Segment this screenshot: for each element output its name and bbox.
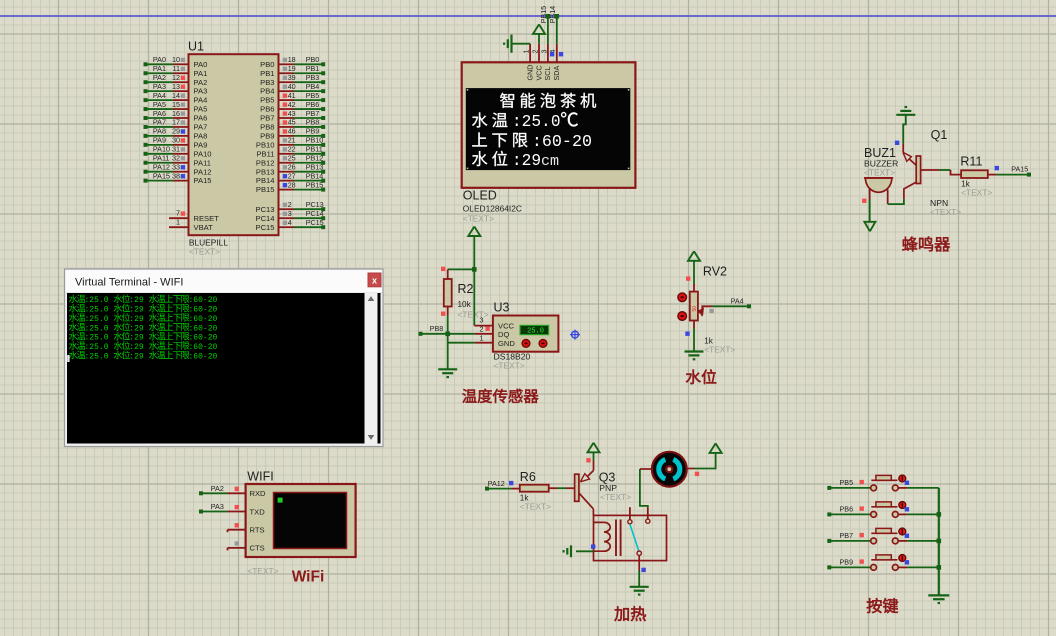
svg-text:PB5: PB5 — [260, 96, 274, 105]
svg-text:RXD: RXD — [250, 489, 267, 498]
svg-text:<TEXT>: <TEXT> — [961, 187, 992, 197]
svg-text:31: 31 — [172, 145, 180, 154]
virtual terminal close button — [368, 273, 381, 287]
svg-text:25.0: 25.0 — [527, 328, 544, 336]
svg-text:<TEXT>: <TEXT> — [189, 247, 220, 257]
svg-text:PB7: PB7 — [840, 531, 854, 540]
svg-text:PB12: PB12 — [306, 154, 324, 163]
U1 pin PA9 (pin 30) wire — [144, 136, 208, 150]
terminal cursor — [67, 355, 69, 362]
WIFI pin RXD — [228, 489, 267, 498]
U1 pin PA2 (pin 12) wire — [144, 73, 208, 87]
wire PA12 to R6 — [487, 488, 520, 490]
resistor R6 — [520, 485, 549, 492]
svg-text::29: :29 — [129, 315, 144, 324]
U1 pin PA0 (pin 10) wire — [144, 55, 208, 69]
svg-text:3: 3 — [288, 209, 292, 218]
svg-text:50: 50 — [692, 306, 698, 312]
svg-text:PA4: PA4 — [731, 296, 744, 305]
svg-text:OLED: OLED — [463, 189, 497, 203]
terminal PA4 — [747, 304, 751, 308]
U1 pin PA10 (pin 31) wire — [144, 145, 212, 159]
ground below buttons — [928, 595, 949, 603]
svg-text:19: 19 — [288, 64, 296, 73]
svg-text:46: 46 — [288, 127, 296, 136]
svg-text:PB1: PB1 — [306, 64, 320, 73]
svg-text:PA0: PA0 — [194, 60, 208, 69]
wire motor to power — [694, 443, 722, 468]
indicator Q1 collector — [895, 141, 899, 145]
push button PB5 row — [827, 475, 939, 491]
svg-text:RTS: RTS — [250, 526, 265, 535]
U1 pin PB7 (pin 43) wire — [260, 109, 325, 123]
svg-text:PB15: PB15 — [539, 6, 548, 24]
U1 pin PB8 (pin 45) wire — [260, 118, 325, 132]
svg-text:PB13: PB13 — [256, 167, 275, 176]
RTS stub tick — [227, 530, 229, 533]
svg-text:CTS: CTS — [250, 544, 265, 553]
label jia-re — [614, 606, 628, 621]
junction button row 2 — [937, 512, 942, 517]
svg-text:PA5: PA5 — [153, 100, 166, 109]
svg-text:PA10: PA10 — [194, 149, 212, 158]
svg-text:26: 26 — [288, 163, 296, 172]
svg-text:39: 39 — [288, 73, 296, 82]
svg-text:PA2: PA2 — [211, 484, 224, 493]
CTS stub tick — [227, 548, 229, 551]
OLED pin 4 SDA stub — [556, 44, 558, 63]
svg-text:PA11: PA11 — [153, 154, 170, 163]
transistor Q3 — [575, 461, 594, 509]
svg-text:1: 1 — [480, 333, 484, 342]
push button PB7 row — [827, 528, 939, 544]
svg-text:1: 1 — [176, 218, 180, 227]
svg-text:WIFI: WIFI — [247, 470, 273, 484]
svg-text:PB10: PB10 — [306, 136, 324, 145]
relay coil — [594, 520, 621, 557]
virtual terminal screen — [67, 293, 381, 444]
indicator R2 top — [441, 267, 445, 271]
wire SCL to PB15 — [547, 16, 549, 44]
svg-text:15: 15 — [172, 100, 180, 109]
svg-text:<TEXT>: <TEXT> — [864, 168, 895, 178]
microcontroller U1 BLUEPILL — [188, 40, 279, 236]
wire BUZ1 to down arrow — [869, 200, 871, 222]
svg-text:2: 2 — [288, 200, 292, 209]
svg-text:PB6: PB6 — [840, 505, 854, 514]
svg-text:11: 11 — [173, 64, 180, 73]
svg-text:2: 2 — [480, 325, 484, 334]
svg-text::25.0: :25.0 — [85, 352, 109, 361]
U1 pin PB6 (pin 42) wire — [260, 100, 325, 114]
ground below relay — [630, 586, 649, 588]
U3 up button — [522, 340, 530, 348]
svg-text:U1: U1 — [188, 40, 204, 54]
relay common contact — [637, 551, 641, 555]
svg-text:PA3: PA3 — [211, 502, 224, 511]
svg-text:PB11: PB11 — [256, 149, 274, 158]
U1 pin RESET (pin 7) — [169, 209, 219, 223]
motor right pin — [687, 468, 694, 470]
svg-text:PB5: PB5 — [840, 478, 854, 487]
U1 pin PA1 (pin 11) wire — [144, 64, 208, 78]
resistor R11 — [961, 170, 988, 178]
U1 pin PB5 (pin 41) wire — [260, 91, 325, 105]
U1 pin PA15 (pin 38) wire — [144, 171, 212, 185]
svg-text:21: 21 — [288, 136, 296, 145]
svg-text::60-20: :60-20 — [189, 343, 218, 352]
svg-text:PC13: PC13 — [256, 205, 275, 214]
U1 pin PB14 (pin 27) wire — [256, 171, 325, 185]
relay contact pole — [646, 507, 650, 523]
junction button row 4 — [937, 565, 942, 570]
svg-text:DQ: DQ — [498, 330, 509, 339]
svg-text:x: x — [372, 275, 377, 285]
temperature sensor U3 body — [493, 316, 559, 352]
wire VCC down to U3 pin 3 — [474, 269, 493, 325]
ground left of relay coil — [564, 545, 594, 557]
OLED pin 1 GND stub — [529, 44, 531, 63]
svg-text:PA7: PA7 — [194, 123, 208, 132]
R2 bottom pin — [447, 307, 449, 316]
resistor R2 — [444, 279, 452, 307]
svg-text:PC13: PC13 — [306, 200, 324, 209]
svg-text::25.0: :25.0 — [85, 296, 109, 305]
svg-text:PA7: PA7 — [153, 118, 166, 127]
svg-text:GND: GND — [525, 65, 534, 81]
svg-text:13: 13 — [172, 82, 180, 91]
terminal PA12 — [485, 479, 505, 491]
ground below U3 — [438, 368, 457, 370]
U1 pin PB13 (pin 26) wire — [256, 163, 325, 177]
wire Q3 collector to relay — [592, 509, 594, 516]
U1 pin PB10 (pin 21) wire — [256, 136, 325, 150]
svg-text:PA3: PA3 — [194, 87, 208, 96]
svg-text::25.0: :25.0 — [85, 306, 109, 315]
wire SDA to PB14 — [556, 16, 558, 44]
OLED pin 2 VCC stub — [538, 44, 540, 63]
svg-text::60-20: :60-20 — [189, 306, 218, 315]
svg-text:U3: U3 — [494, 301, 510, 315]
svg-text::25.0: :25.0 — [85, 334, 109, 343]
svg-text:PA5: PA5 — [194, 105, 208, 114]
indicator square pin4 — [559, 52, 563, 56]
indicator RV2 wiper — [709, 309, 713, 313]
svg-text:PA6: PA6 — [194, 114, 208, 123]
OLED screen text line 3 — [472, 132, 592, 152]
indicator U3 DQ — [485, 327, 489, 331]
motor left pin — [640, 468, 651, 470]
svg-text:PB11: PB11 — [306, 145, 323, 154]
svg-text:PA1: PA1 — [194, 69, 208, 78]
svg-text::29: :29 — [129, 343, 144, 352]
svg-text:PA0: PA0 — [153, 55, 166, 64]
OLED screen — [466, 88, 631, 170]
BUZ1 left leg — [869, 188, 871, 199]
wire R11 to PA15 — [996, 164, 1031, 176]
OLED screen text line 2 — [472, 112, 578, 131]
svg-text::60-20: :60-20 — [189, 324, 218, 333]
junction PB8/R2 — [445, 332, 450, 337]
svg-text:PB8: PB8 — [306, 118, 320, 127]
svg-text:PB7: PB7 — [260, 114, 274, 123]
wire R6 to Q3 base — [549, 487, 575, 489]
svg-text:RESET: RESET — [194, 214, 220, 223]
svg-text:R11: R11 — [960, 154, 982, 168]
U3 temperature display 25.0 — [520, 325, 549, 335]
svg-text:VBAT: VBAT — [194, 223, 214, 232]
wire relay common to ground — [638, 555, 640, 586]
svg-text:PA9: PA9 — [153, 136, 166, 145]
svg-text:29: 29 — [172, 127, 180, 136]
svg-text::29: :29 — [129, 352, 144, 361]
U1 pin PC14 (pin 3) wire — [256, 209, 326, 223]
svg-text::29: :29 — [129, 306, 144, 315]
svg-text:R6: R6 — [520, 470, 536, 484]
svg-text:PB7: PB7 — [306, 109, 320, 118]
svg-text:Virtual Terminal - WIFI: Virtual Terminal - WIFI — [75, 277, 183, 289]
wire ground to Q1 collector — [903, 115, 906, 144]
svg-text:PB15: PB15 — [256, 185, 275, 194]
junction VCC node — [472, 267, 477, 272]
svg-text:38: 38 — [172, 171, 180, 180]
svg-text:PB6: PB6 — [260, 105, 274, 114]
svg-text::60-20: :60-20 — [189, 296, 218, 305]
svg-text:RV2: RV2 — [703, 264, 727, 278]
inverted ground above Q1 — [896, 114, 915, 116]
power arrow above RV2 — [688, 251, 700, 284]
wire PA2 to RXD — [199, 484, 228, 495]
potentiometer RV2 body — [690, 292, 698, 321]
svg-text:PA15: PA15 — [1011, 164, 1028, 173]
U1 pin VBAT (pin 1) — [169, 218, 213, 232]
svg-text:PA12: PA12 — [153, 163, 170, 172]
svg-text:22: 22 — [288, 145, 296, 154]
power down arrow — [864, 222, 875, 232]
svg-text:PB14: PB14 — [548, 6, 557, 24]
indicator RV2 bottom — [685, 332, 689, 336]
svg-text::60-20: :60-20 — [189, 334, 218, 343]
svg-text:16: 16 — [172, 109, 180, 118]
U1 pin PB0 (pin 18) wire — [260, 55, 325, 69]
svg-text::60-20: :60-20 — [189, 315, 218, 324]
indicator BUZ1 — [862, 199, 866, 203]
svg-text:2: 2 — [532, 50, 539, 54]
indicator R11 — [995, 166, 999, 170]
svg-text:<TEXT>: <TEXT> — [458, 310, 489, 320]
label an-jian — [867, 598, 882, 613]
svg-text:PB1: PB1 — [260, 69, 274, 78]
svg-text:PA10: PA10 — [153, 145, 170, 154]
svg-text::25.0: :25.0 — [85, 324, 109, 333]
svg-text:28: 28 — [288, 180, 296, 189]
svg-text:<TEXT>: <TEXT> — [520, 502, 551, 512]
origin marker — [570, 330, 580, 340]
svg-text:27: 27 — [288, 171, 296, 180]
OLED display U-OLED body — [462, 62, 636, 188]
svg-text:SDA: SDA — [552, 66, 561, 81]
svg-text:PB0: PB0 — [306, 55, 320, 64]
svg-text:<TEXT>: <TEXT> — [494, 360, 525, 370]
svg-text:PB3: PB3 — [260, 78, 274, 87]
svg-text:4: 4 — [288, 218, 292, 227]
svg-text:PA2: PA2 — [153, 73, 166, 82]
U1 pin PA8 (pin 29) wire — [144, 127, 208, 141]
svg-text:PA8: PA8 — [194, 132, 208, 141]
svg-text:PA3: PA3 — [153, 82, 166, 91]
svg-text:PC14: PC14 — [306, 209, 324, 218]
svg-text:PA12: PA12 — [194, 167, 212, 176]
indicator square pin3 — [550, 52, 554, 56]
svg-text:PA1: PA1 — [153, 64, 166, 73]
svg-text::60-20: :60-20 — [532, 133, 592, 152]
RV2 wiper arrow — [697, 306, 748, 316]
svg-text::25.: :25. — [512, 113, 551, 131]
svg-text:1: 1 — [524, 50, 531, 54]
WIFI pin TXD — [228, 507, 266, 516]
junction PB14 — [555, 14, 560, 19]
svg-text:PB9: PB9 — [306, 127, 320, 136]
sheet border line — [0, 15, 1056, 17]
relay switch blade — [630, 524, 639, 551]
power arrow above R2 — [468, 227, 480, 270]
svg-text:PA15: PA15 — [153, 171, 170, 180]
svg-text:43: 43 — [288, 109, 296, 118]
svg-text:30: 30 — [172, 136, 180, 145]
OLED screen text line 4 — [472, 151, 559, 170]
svg-text:cm: cm — [541, 153, 559, 170]
svg-text:32: 32 — [172, 154, 180, 163]
svg-text:<TEXT>: <TEXT> — [247, 566, 278, 576]
svg-text:0: 0 — [551, 113, 561, 131]
wire PB8 horizontal — [419, 324, 493, 336]
junction button row 3 — [937, 539, 942, 544]
svg-text:10: 10 — [172, 55, 180, 64]
relay RL1 body — [594, 515, 667, 560]
wire junction to R2 top — [448, 269, 475, 279]
svg-text:PB5: PB5 — [306, 91, 320, 100]
label feng-ming-qi — [902, 237, 917, 252]
svg-text:7: 7 — [176, 209, 180, 218]
OLED pin 3 SCL stub — [547, 44, 549, 63]
svg-text:3: 3 — [480, 316, 484, 325]
svg-text:<TEXT>: <TEXT> — [600, 492, 631, 502]
svg-text:PB13: PB13 — [306, 163, 324, 172]
U1 pin PA7 (pin 17) wire — [144, 118, 208, 132]
svg-text:R2: R2 — [458, 282, 474, 296]
RV2 down button — [678, 312, 687, 321]
svg-text:OLED12864I2C: OLED12864I2C — [463, 204, 522, 214]
indicator squares WIFI pins — [235, 487, 239, 491]
svg-text:PB14: PB14 — [256, 176, 275, 185]
label shui-wei — [686, 370, 701, 385]
svg-text:<TEXT>: <TEXT> — [930, 207, 961, 217]
svg-text:40: 40 — [288, 82, 296, 91]
indicator RV2 top — [686, 276, 690, 280]
svg-text:PB4: PB4 — [306, 82, 320, 91]
WIFI pin CTS — [228, 544, 265, 553]
svg-text:PB0: PB0 — [260, 60, 274, 69]
U1 pin PB9 (pin 46) wire — [260, 127, 325, 141]
svg-text::60-20: :60-20 — [189, 352, 218, 361]
ground at OLED pin1 — [504, 35, 530, 53]
WIFI module screen — [274, 493, 347, 549]
transistor Q1 — [903, 143, 921, 199]
virtual terminal text — [67, 294, 217, 362]
U1 pin PA4 (pin 14) wire — [144, 91, 208, 105]
svg-text:PB9: PB9 — [840, 558, 854, 567]
svg-text:PA8: PA8 — [153, 127, 166, 136]
label wen-du-chuan-gan-qi — [462, 389, 476, 403]
indicator relay common — [641, 568, 645, 572]
BUZ1 right leg — [887, 190, 889, 205]
svg-text::29: :29 — [512, 152, 541, 170]
svg-text:PC15: PC15 — [256, 223, 275, 232]
indicator relay coil — [591, 544, 595, 548]
svg-text:18: 18 — [288, 55, 296, 64]
svg-text:10k: 10k — [458, 300, 472, 309]
svg-text:25: 25 — [288, 154, 296, 163]
svg-text:<TEXT>: <TEXT> — [704, 344, 735, 354]
virtual terminal scrollbar — [365, 293, 378, 444]
WIFI module body — [246, 484, 356, 557]
U1 pin PB3 (pin 39) wire — [260, 73, 325, 87]
U1 pin PB4 (pin 40) wire — [260, 82, 325, 96]
indicator R2 bottom — [441, 312, 445, 316]
wire U3 GND pin to ground — [448, 334, 493, 369]
U1 pin PA3 (pin 13) wire — [144, 82, 208, 96]
svg-text:41: 41 — [288, 91, 296, 100]
svg-text:SCL: SCL — [543, 67, 552, 81]
svg-text:45: 45 — [288, 118, 296, 127]
Q1 base wire — [921, 170, 962, 175]
indicator Q3 emitter — [586, 458, 590, 462]
svg-text:PA2: PA2 — [194, 78, 208, 87]
U1 pin PC13 (pin 2) wire — [256, 200, 326, 214]
U1 pin PB1 (pin 19) wire — [260, 64, 325, 78]
U1 pin PA11 (pin 32) wire — [144, 154, 211, 168]
svg-text:PB14: PB14 — [306, 171, 324, 180]
svg-text::29: :29 — [129, 334, 144, 343]
svg-text:PC14: PC14 — [256, 214, 275, 223]
power arrow at OLED pin2 — [533, 24, 545, 43]
virtual terminal window frame — [65, 269, 384, 447]
R11 right pin — [988, 174, 997, 176]
svg-text:GND: GND — [498, 339, 515, 348]
svg-text:PA9: PA9 — [194, 140, 208, 149]
svg-text:PB12: PB12 — [256, 158, 275, 167]
svg-text:TXD: TXD — [250, 507, 266, 516]
push button PB6 row — [827, 502, 939, 518]
ground below RV2 — [685, 350, 704, 352]
wire BUZ1 to Q1 emitter — [888, 199, 904, 204]
svg-text:VCC: VCC — [498, 321, 515, 330]
svg-text:PB4: PB4 — [260, 87, 274, 96]
U1 pin PA5 (pin 15) wire — [144, 100, 208, 114]
U1 pin PB15 (pin 28) wire — [256, 180, 325, 194]
wire RV2 to ground — [693, 329, 695, 351]
svg-text:14: 14 — [172, 91, 180, 100]
svg-text:PB3: PB3 — [306, 73, 320, 82]
RV2 bottom pin — [693, 321, 695, 329]
buzzer BUZ1 — [864, 178, 893, 192]
svg-text:42: 42 — [288, 100, 296, 109]
junction PB15 — [546, 14, 551, 19]
svg-text:PA4: PA4 — [153, 91, 166, 100]
wire motor to relay — [640, 469, 648, 507]
RV2 up button — [678, 293, 687, 302]
svg-text:33: 33 — [172, 163, 180, 172]
